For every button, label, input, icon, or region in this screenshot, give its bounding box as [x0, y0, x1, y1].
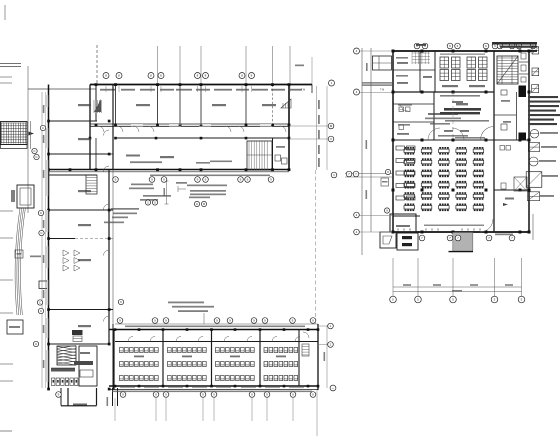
right-end bubbles of wing bottom	[331, 172, 337, 178]
bottom wing end walls and dividers	[317, 324, 319, 390]
double door arcs hall south wall	[428, 128, 440, 140]
vertical wing inner wall x96	[95, 85, 97, 122]
dark block right edge	[519, 86, 527, 98]
left edge road lines	[0, 210, 13, 212]
wc tile hatch	[412, 52, 430, 64]
curved path bundle	[15, 208, 20, 315]
wall right of stair top wing	[272, 138, 274, 170]
classroom labels bottom wing	[134, 356, 144, 358]
partition marks big room	[63, 250, 69, 256]
windows on window wall	[169, 123, 181, 126]
top-right roof detail text	[492, 42, 537, 45]
vertical dim right of top wing	[316, 86, 318, 170]
right rooms mid	[516, 92, 518, 140]
partial divider y238	[49, 238, 76, 240]
left wing bottom wall y170	[49, 169, 290, 171]
bottom wing protrusion rooms	[60, 388, 62, 406]
right building columns	[392, 50, 395, 53]
dim lines below right building	[393, 286, 522, 288]
left lower small structure	[7, 320, 23, 334]
bottom wing bottom wall	[109, 385, 318, 387]
bottom wing corridor wall	[115, 341, 318, 343]
right side dense text cluster	[528, 96, 558, 98]
west block wall x90	[89, 85, 91, 171]
vertical wing right wall upper	[112, 85, 114, 171]
toilet stalls	[52, 378, 55, 386]
vertical wing window ticks on left wall	[47, 95, 48, 107]
hatched ramp top-left	[1, 122, 28, 145]
inner rooms column vertical wing	[95, 138, 97, 170]
sub divider y175	[49, 174, 98, 176]
window double lines bottom wall	[120, 387, 135, 389]
top-left boundary marks	[0, 63, 21, 65]
stair right building top	[497, 56, 518, 84]
vertical wing right wall lower	[108, 170, 110, 344]
connect lines wing to right bldg	[345, 173, 392, 175]
extra band labels left wing	[126, 155, 140, 157]
vertical text below wing	[107, 397, 109, 406]
small annex left of right building	[373, 56, 392, 70]
door arcs corridor	[98, 126, 104, 132]
big square X symbol	[526, 172, 542, 188]
inner stair vertical wing	[86, 175, 97, 194]
left wing right wall	[288, 85, 290, 172]
shaft symbol bottom room	[72, 330, 83, 335]
diagonal annotation left	[30, 256, 41, 258]
axis verticals x362 x371	[361, 48, 363, 255]
bubbles below right building wall	[419, 235, 425, 241]
door arc middle right building	[481, 127, 495, 141]
columns vertical wing	[47, 120, 50, 123]
axis line dashed x97	[96, 45, 98, 85]
door arcs vertical wing	[104, 130, 110, 136]
toilet room wall	[79, 346, 97, 386]
columns bottom wing	[114, 328, 117, 331]
ramp lower strip	[1, 145, 28, 149]
small vertical dim mid annotations	[166, 181, 168, 204]
2x2 desk clusters upper	[440, 57, 449, 68]
dashed divider x272	[272, 85, 274, 125]
vertical wing dividers	[49, 120, 98, 122]
dim text below wing bottom wall	[150, 175, 270, 177]
bubble row above bottom wing	[117, 318, 123, 324]
annex A below bottom wall	[380, 232, 396, 248]
grid axis lines, left wing	[157, 46, 159, 85]
bay window bump left wall	[39, 281, 49, 289]
stair hatch bottom-left	[57, 346, 76, 365]
verticals below bottom wing	[114, 398, 116, 421]
svg-text:T.M: T.M	[380, 88, 384, 92]
tables left column hall	[396, 146, 405, 150]
west bubbles vertical wing	[40, 125, 45, 130]
left bubbles right building	[354, 48, 360, 54]
stair top wing right part	[247, 141, 272, 170]
axis line x312	[311, 57, 313, 85]
skylight rect right building	[514, 177, 527, 191]
top bubbles right building	[414, 43, 420, 49]
annex B below bottom wall	[397, 233, 418, 250]
right column small rooms top	[519, 61, 529, 63]
right side annotation symbols column	[532, 47, 539, 54]
door arcs bottom wing corridor	[128, 337, 133, 342]
second dim tick row below top wall	[105, 86, 107, 92]
grid bubbles top of left wing	[103, 73, 109, 79]
right building inner walls	[434, 51, 436, 92]
site line x28	[27, 66, 29, 213]
window ticks above bottom wall right building	[397, 229, 399, 231]
right building outline	[392, 51, 394, 232]
site line x30	[30, 121, 32, 149]
west dim lines of vertical wing	[41, 92, 43, 388]
bottom wing eave line	[115, 323, 318, 325]
vertical wing left wall	[48, 85, 50, 391]
steps ramp below right building	[453, 233, 473, 252]
dim text above bottom wing	[125, 326, 305, 328]
label box on curve	[15, 250, 23, 258]
storage room fixtures right of stair	[275, 155, 281, 161]
left wing room divider walls	[115, 85, 117, 125]
right side outer line below	[532, 214, 534, 240]
svg-text:T.M: T.M	[301, 88, 305, 92]
bubble left of bottom wing top	[118, 299, 123, 304]
columns on left wing walls	[95, 83, 98, 86]
label below protrusion	[73, 404, 87, 406]
svg-text:V: V	[330, 137, 332, 141]
svg-text:+: +	[332, 386, 334, 390]
tables in dining hall	[404, 149, 415, 152]
dim tick text below top wall right building	[440, 54, 485, 55]
dim text below bottom wing	[112, 391, 312, 393]
annotation cluster below left wing	[176, 182, 187, 184]
right building interior tiny annotations	[440, 95, 480, 97]
stair in top room of vertical wing	[94, 99, 101, 112]
small structure left	[17, 185, 34, 208]
upper rooms left column	[419, 51, 421, 92]
left rooms labels right building	[397, 62, 408, 64]
classroom desks bottom wing	[120, 348, 124, 353]
interior dim text above wing bottom wall	[130, 161, 162, 163]
bubble row below bottom wing	[56, 392, 62, 398]
left wing corridor south wall y138	[115, 137, 289, 139]
door arcs bottom right building	[480, 219, 493, 232]
bubble row below wing bottom wall	[113, 177, 119, 183]
room labels top wing	[136, 104, 150, 106]
left wing top wall	[90, 84, 312, 86]
bottom wing top wall	[109, 329, 318, 331]
leader bracket annotation	[177, 186, 179, 192]
right dim line bottom wing	[326, 326, 328, 388]
left wing window wall y125	[90, 123, 289, 125]
bubble wing top-right	[329, 80, 335, 86]
bottom-left annex rooms right building	[390, 214, 416, 232]
circle symbol	[530, 129, 539, 138]
room labels vertical wing	[78, 104, 91, 106]
entry room stair bottom wing right end	[302, 344, 309, 356]
entrance canopy symbol right of wing	[281, 99, 291, 108]
dim verticals below right building	[392, 258, 394, 296]
dimension text row below top wall	[100, 89, 116, 91]
annotation above bottom wing	[168, 302, 204, 304]
bubbles dim row	[390, 296, 397, 303]
dashed axis continuation x315	[315, 170, 317, 324]
connecting corridor gray band	[362, 82, 392, 85]
counter band	[51, 368, 75, 372]
central hall label	[456, 103, 468, 105]
svg-text:B: B	[203, 202, 205, 206]
left-side dim text right building	[366, 140, 368, 149]
svg-text:A: A	[196, 202, 198, 206]
detail symbol circles	[145, 200, 150, 205]
canopy line west of top wall	[28, 88, 96, 90]
